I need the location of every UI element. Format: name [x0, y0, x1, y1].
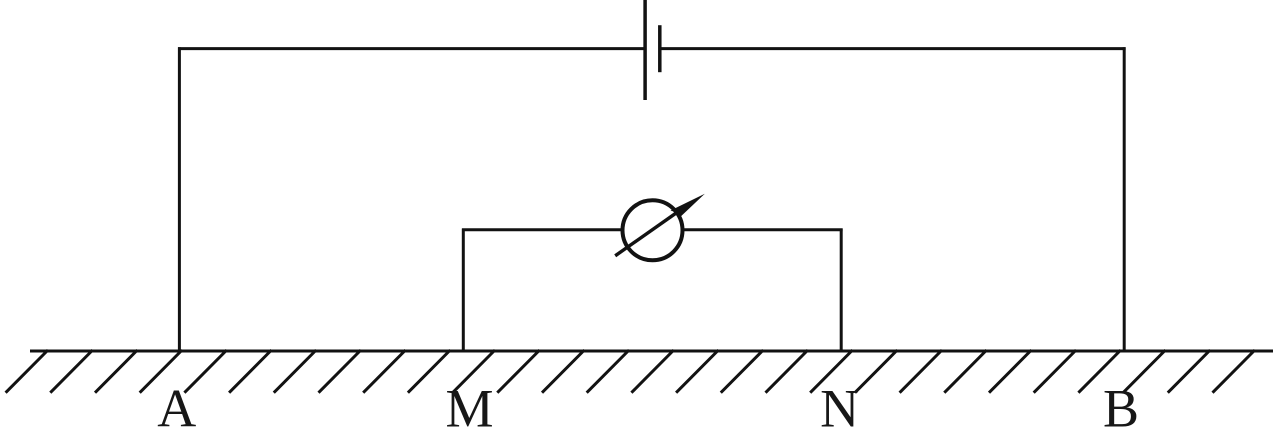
wire M vertical: [462, 229, 465, 352]
ground: [30, 350, 1273, 353]
battery long plate: [643, 0, 647, 100]
wire bridge right: [684, 228, 843, 231]
battery short plate: [658, 25, 662, 72]
svg-text:M: M: [445, 379, 493, 439]
galvanometer: [615, 194, 705, 260]
wire A vertical: [178, 47, 181, 351]
wire top right: [660, 47, 1126, 50]
wire B vertical: [1123, 47, 1126, 351]
wire top left: [178, 47, 644, 50]
ground hatching: [6, 350, 1255, 393]
svg-text:N: N: [820, 379, 859, 439]
node labels: [157, 379, 1139, 439]
battery: [645, 0, 660, 100]
svg-text:B: B: [1103, 379, 1139, 439]
wire bridge left: [462, 228, 621, 231]
wire N vertical: [840, 229, 843, 352]
svg-text:A: A: [157, 379, 196, 439]
